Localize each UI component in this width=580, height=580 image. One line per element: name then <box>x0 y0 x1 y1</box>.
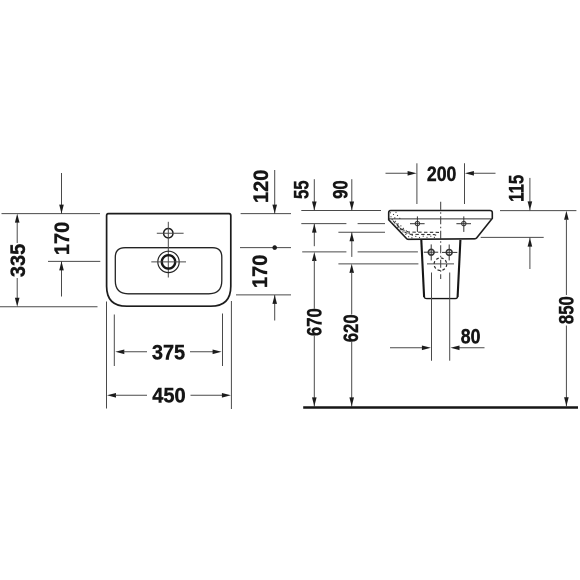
dashed basin interior (hidden line) <box>393 221 439 233</box>
plan drain inner circle <box>162 255 175 268</box>
svg-text:170: 170 <box>248 255 272 288</box>
dimension 620 <box>340 264 363 407</box>
extension line: fixing hole level (55) <box>301 223 346 225</box>
svg-text:670: 670 <box>304 308 327 336</box>
dimension 375 <box>115 341 221 365</box>
extension lines 80 (pedestal holes) <box>431 273 433 361</box>
svg-text:90: 90 <box>330 180 353 199</box>
extension line top right of plan <box>241 213 291 215</box>
svg-text:170: 170 <box>50 222 74 255</box>
vertical centreline (side view) <box>440 202 442 279</box>
floor line <box>303 406 578 409</box>
fixing hole right (side view) <box>456 216 471 232</box>
dimension 115 <box>506 175 533 269</box>
dimension 850 <box>556 211 579 407</box>
svg-text:335: 335 <box>6 244 30 277</box>
plan drain outer circle <box>158 251 179 272</box>
extension line top left <box>2 213 101 215</box>
extension line: siphon level (620) <box>338 263 418 265</box>
side rim inner line <box>389 218 491 220</box>
dimension 335 <box>6 214 30 307</box>
dimension 200 <box>386 162 496 186</box>
extension line: top edge right <box>500 210 576 212</box>
dimension 170 right <box>248 255 277 321</box>
pedestal fixing hole right <box>442 245 457 261</box>
stipple hatch on cut rim <box>390 212 435 239</box>
svg-text:850: 850 <box>556 296 579 324</box>
dimension 55 <box>290 179 316 246</box>
svg-text:620: 620 <box>340 314 363 342</box>
extension lines 375 <box>113 315 115 367</box>
faucet hole crosshair <box>157 232 184 234</box>
extension line: basin bottom right (115) <box>481 236 544 238</box>
extension line drain center left <box>48 260 100 262</box>
extension line: top edge left <box>301 210 381 212</box>
dimension 450 <box>107 384 231 408</box>
dashed basin underside (hidden line) <box>397 223 438 237</box>
svg-text:80: 80 <box>461 325 481 349</box>
dimension 120 <box>249 170 277 250</box>
pedestal fixing hole left <box>424 244 438 260</box>
plan outer rim <box>107 214 231 307</box>
extension line inner-basin top right <box>240 247 291 249</box>
dimension 80 <box>390 325 485 350</box>
dimension 670 <box>304 252 327 406</box>
pedestal (siphon cover) <box>421 240 424 297</box>
extension lines 450 <box>106 302 108 409</box>
extension lines 200 (fixing holes) <box>416 163 418 204</box>
fixing hole left (side view) <box>410 216 425 232</box>
svg-text:55: 55 <box>290 180 313 199</box>
dimension 90 <box>330 179 355 257</box>
svg-text:375: 375 <box>152 341 185 365</box>
drain crosshair <box>151 261 186 263</box>
plan centerline <box>167 222 169 278</box>
extension line: pedestal holes level (670) <box>302 251 346 253</box>
plan faucet hole <box>164 229 173 238</box>
svg-text:200: 200 <box>427 162 456 186</box>
siphon circle crosshair <box>427 263 454 265</box>
plan inner basin <box>115 248 222 294</box>
extension line: basin inner bottom (90) <box>338 231 385 233</box>
svg-text:450: 450 <box>152 384 185 408</box>
extension line inner-basin bottom right <box>236 294 291 296</box>
side profile outline <box>389 211 493 240</box>
dimension 170 left <box>50 173 74 297</box>
svg-text:120: 120 <box>249 170 273 203</box>
extension line bottom left <box>0 306 98 308</box>
siphon outlet dashed circle <box>434 258 447 271</box>
svg-text:115: 115 <box>506 175 529 202</box>
